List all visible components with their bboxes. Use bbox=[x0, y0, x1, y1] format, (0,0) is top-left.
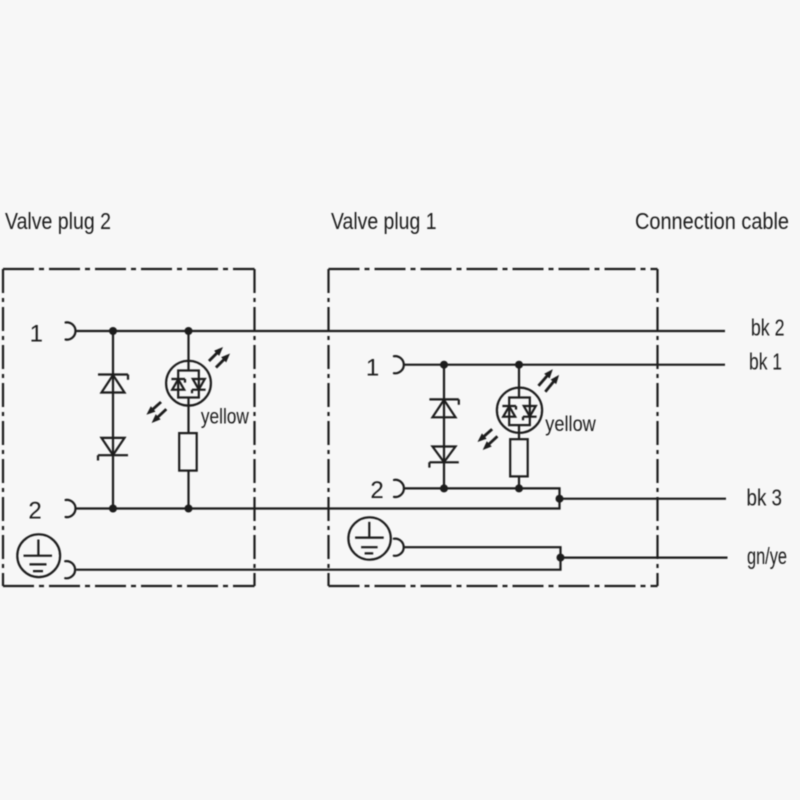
pin 1 contact arc (valve plug 1) bbox=[394, 356, 404, 373]
light arrow (plug1 lower-left #2) bbox=[483, 436, 498, 450]
ground symbol (valve plug 2) bbox=[17, 534, 60, 577]
svg-text:bk 3: bk 3 bbox=[747, 485, 783, 511]
wire: plug2 pin2 to bk3 junction bbox=[77, 499, 560, 509]
svg-text:bk 1: bk 1 bbox=[749, 348, 782, 374]
LED left diode (plug1, pointing up) bbox=[502, 406, 516, 417]
node: bk 3 junction bbox=[556, 495, 564, 503]
suppressor diode D1 (plug2, anode down) bbox=[98, 375, 128, 393]
valve plug 2 enclosure (dash-dot box) bbox=[3, 269, 255, 586]
wire: plug2 LED branch top lead bbox=[187, 331, 189, 371]
svg-text:yellow: yellow bbox=[545, 413, 596, 436]
LED inner loop rectangle (plug2) bbox=[178, 371, 199, 398]
node: plug2 suppressor / pin2 junction bbox=[109, 505, 117, 513]
wire: plug2 resistor to pin2 lead bbox=[187, 471, 189, 509]
pin 2 contact arc (valve plug 2) bbox=[66, 500, 76, 517]
LED left diode (plug2, pointing up) bbox=[171, 379, 185, 390]
wire: plug2 pin1 to cable bk 2 bbox=[77, 330, 726, 332]
node: plug2 pin1 / LED junction bbox=[185, 327, 193, 335]
wire: plug2 ground to gn/ye junction bbox=[76, 558, 560, 570]
light arrow (plug2 upper-right #2) bbox=[216, 354, 230, 368]
LED right diode (plug1, pointing down) bbox=[523, 406, 537, 420]
node: plug1 pin1 / LED junction bbox=[515, 361, 523, 369]
node: plug1 suppressor / pin2 junction bbox=[440, 484, 448, 492]
svg-text:yellow: yellow bbox=[201, 405, 250, 428]
suppressor diode D3 (plug1, anode down) bbox=[429, 399, 458, 417]
LED lamp circle (plug2) bbox=[166, 361, 211, 406]
ground contact arc (valve plug 1) bbox=[394, 539, 404, 556]
pin 1 contact arc (valve plug 2) bbox=[66, 322, 76, 339]
wire: plug1 pin2 to bk3 junction bbox=[405, 488, 560, 498]
LED right diode (plug2, pointing down) bbox=[192, 379, 206, 393]
resistor R2 (plug1) bbox=[510, 439, 528, 476]
light arrow (plug1 upper-right #2) bbox=[545, 375, 559, 392]
suppressor diode D4 (plug1, cathode down) bbox=[429, 447, 458, 468]
node: plug1 pin1 / suppressor junction bbox=[440, 361, 448, 369]
wire: plug1 LED to resistor lead bbox=[518, 425, 520, 439]
node: gn/ye junction bbox=[557, 554, 565, 562]
LED inner loop rectangle (plug1) bbox=[509, 398, 530, 426]
ground contact arc (valve plug 2) bbox=[65, 561, 75, 578]
node: plug2 pin1 / suppressor junction bbox=[109, 327, 117, 335]
LED lamp circle (plug1) bbox=[497, 388, 542, 433]
svg-text:bk 2: bk 2 bbox=[751, 314, 785, 340]
wire: gn/ye cable lead bbox=[561, 556, 728, 558]
wire: plug1 LED branch top lead bbox=[518, 365, 520, 398]
wire: plug1 suppressor-diode branch bbox=[443, 365, 445, 489]
svg-text:2: 2 bbox=[370, 477, 383, 504]
wire: plug2 suppressor-diode branch bbox=[112, 331, 114, 509]
node: plug1 resistor / pin2 junction bbox=[515, 484, 523, 492]
svg-text:2: 2 bbox=[28, 498, 41, 525]
node: plug2 resistor / pin2 junction bbox=[185, 505, 193, 513]
pin 2 contact arc (valve plug 1) bbox=[394, 480, 404, 497]
wire: plug2 LED to resistor lead bbox=[187, 398, 189, 434]
svg-text:Valve plug 1: Valve plug 1 bbox=[331, 208, 437, 234]
valve plug 1 enclosure (dash-dot box) bbox=[329, 269, 658, 586]
light arrow (plug1 upper-right #1) bbox=[539, 369, 553, 386]
ground symbol (valve plug 1) bbox=[348, 517, 390, 559]
light arrow (plug2 lower-left #1) bbox=[146, 402, 161, 415]
wire: plug1 resistor to pin2 lead bbox=[518, 476, 520, 488]
svg-text:gn/ye: gn/ye bbox=[747, 543, 787, 569]
wire: bk 3 cable lead bbox=[560, 498, 727, 500]
light arrow (plug1 lower-left #1) bbox=[478, 429, 493, 442]
svg-text:1: 1 bbox=[366, 354, 379, 381]
svg-text:1: 1 bbox=[30, 321, 43, 348]
wire: plug1 ground to gn/ye junction bbox=[404, 547, 560, 557]
svg-text:Connection cable: Connection cable bbox=[635, 208, 789, 234]
suppressor diode D2 (plug2, cathode down) bbox=[98, 438, 128, 461]
resistor R1 (plug2) bbox=[179, 433, 197, 471]
svg-text:Valve plug 2: Valve plug 2 bbox=[5, 208, 111, 234]
light arrow (plug2 upper-right #1) bbox=[209, 347, 223, 361]
light arrow (plug2 lower-left #2) bbox=[152, 409, 167, 423]
wire: plug1 pin1 to cable bk 1 bbox=[405, 364, 726, 366]
